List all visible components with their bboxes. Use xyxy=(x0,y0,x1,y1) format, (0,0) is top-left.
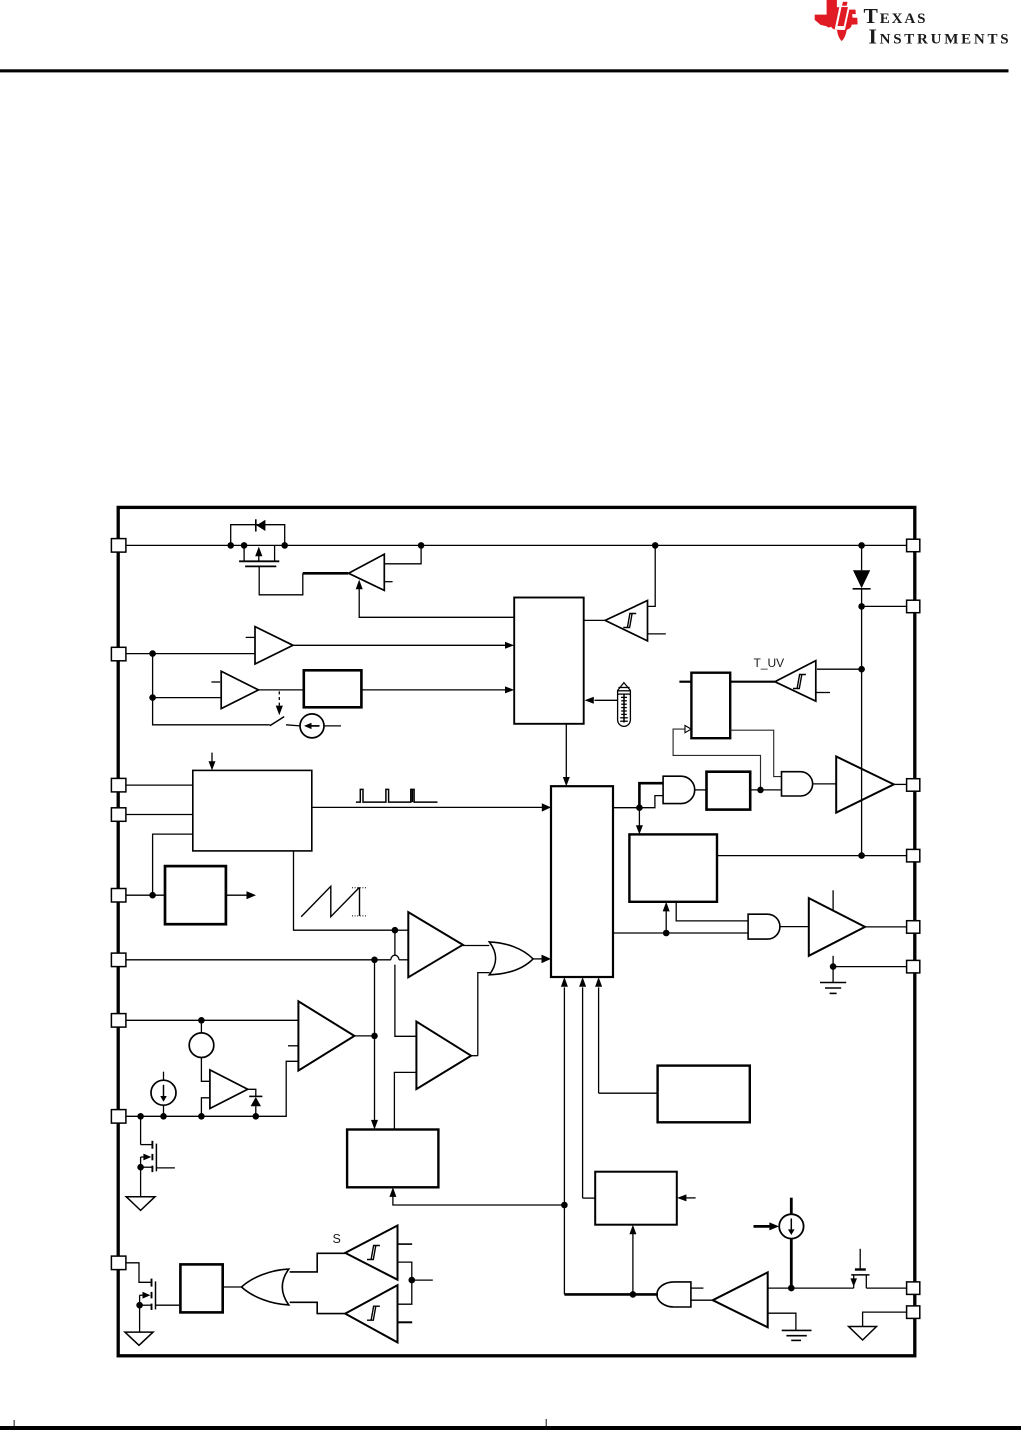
diagram outer border xyxy=(118,507,915,1355)
pin EN xyxy=(111,647,126,661)
wire B3 reset path xyxy=(730,730,781,776)
pin RT/CLK xyxy=(111,778,126,792)
wire U12 upper input xyxy=(768,1287,854,1289)
wire B8 bottom arrow xyxy=(665,911,667,933)
and-gate G4 xyxy=(748,914,780,939)
pin PH xyxy=(907,779,920,792)
nmos Q4 xyxy=(124,1263,180,1332)
comparator U14 xyxy=(345,1285,397,1342)
ground GND5 xyxy=(125,1332,153,1345)
wire B11 input xyxy=(583,1197,596,1199)
wire RT/CLK pin net xyxy=(126,784,193,786)
wire G1 lower input xyxy=(478,973,490,1056)
block B9 overload recovery xyxy=(347,1130,438,1188)
buffer U7 high-side driver xyxy=(836,757,894,813)
TI logo bug xyxy=(815,0,858,41)
pin COMP xyxy=(111,953,126,967)
node B11-arrow xyxy=(630,1291,637,1298)
hysteresis glyph U4 xyxy=(623,614,636,628)
bottom rule xyxy=(0,1426,1021,1430)
wire EN upper net xyxy=(126,1019,299,1021)
wire U8 top stub xyxy=(832,890,834,910)
nmos Q3 xyxy=(850,1249,869,1288)
wire clock to B6 xyxy=(312,806,543,808)
node EN-U9 xyxy=(198,1113,205,1120)
svg-text:T_UV: T_UV xyxy=(754,656,785,670)
node Q2-bulk xyxy=(137,1164,144,1171)
comparator U4 xyxy=(605,601,647,641)
wire B8 output to pin xyxy=(717,855,907,857)
wire sense to PWM comp xyxy=(395,929,408,931)
node U13-U14 xyxy=(409,1277,416,1284)
diode D3 xyxy=(249,1095,262,1097)
wire U6 output xyxy=(463,945,490,947)
thermometer icon xyxy=(618,683,631,727)
pin 6r xyxy=(907,960,920,973)
wire G5 upper stub xyxy=(691,1287,704,1289)
wire sense stub xyxy=(412,1279,433,1281)
wire B11 bottom arrow xyxy=(632,1234,634,1295)
node foldback xyxy=(149,892,156,899)
wire T_UV comp input xyxy=(817,668,862,670)
wire SW1 to I1 xyxy=(286,725,300,726)
TI logo text xyxy=(864,4,1012,49)
pin 5 xyxy=(111,889,126,903)
pin 9 xyxy=(111,1256,126,1270)
block B10 xyxy=(658,1066,750,1123)
wire B12 to G6 xyxy=(223,1286,242,1288)
wire U3 bar stub xyxy=(211,681,220,683)
wire G1 output to B6 xyxy=(533,958,542,960)
wire G6 upper input from U13 xyxy=(290,1253,346,1272)
inverter U12 xyxy=(713,1272,768,1327)
pin GND xyxy=(907,1306,920,1319)
node VIN-Q1-drain xyxy=(241,542,248,549)
comparator U13 xyxy=(345,1226,397,1280)
wire boot comparator upper input xyxy=(384,545,421,563)
wire G5 output to B6 xyxy=(564,1293,658,1296)
pmos Q1 xyxy=(239,545,279,566)
node Q4-bulk xyxy=(136,1302,143,1309)
pmos Q1 body-diode loop xyxy=(231,525,285,546)
node EN-Q2 xyxy=(137,1113,144,1120)
wire U11 output to G1 xyxy=(471,1055,478,1057)
clock waveform glyph xyxy=(356,789,438,802)
wire B4 top arrow xyxy=(211,753,213,762)
wire pin BOOT-PH xyxy=(862,605,907,607)
wire B4 third input xyxy=(153,834,193,895)
wire B6 branch to B8 xyxy=(638,808,640,826)
block B11 xyxy=(595,1172,677,1225)
wire B7 to G3 xyxy=(750,789,781,791)
dashed arrow SW1 control xyxy=(278,691,280,705)
wire U8 return rail xyxy=(832,956,834,983)
op-amp U2 xyxy=(255,627,293,664)
wire pin to GND3 xyxy=(863,1312,907,1326)
block B2 regulator xyxy=(514,598,584,724)
wire B1 to B2 xyxy=(361,689,505,691)
ground GND1 xyxy=(820,983,846,994)
wire I1 stub xyxy=(324,725,341,727)
block B3 thermal shutdown xyxy=(691,673,730,739)
wire G3 output xyxy=(813,783,837,785)
wire Q3 to pin xyxy=(866,1287,907,1289)
wire U5 lower stub xyxy=(816,692,830,694)
block B1 deglitch xyxy=(304,670,362,707)
wire EN-foldback net xyxy=(126,894,165,896)
sawtooth glyph xyxy=(301,886,359,916)
wire COMP branch down xyxy=(374,960,376,1121)
wire U13 input net xyxy=(398,1262,412,1304)
node VIN-U1 xyxy=(418,542,425,549)
wire G6 lower input from U14 xyxy=(290,1302,346,1313)
wire U2 bar stub xyxy=(246,636,255,638)
wire I2 to U9 xyxy=(201,1058,210,1082)
wire U8 output to pin xyxy=(865,926,907,928)
wire G2 to B7 xyxy=(695,789,707,791)
pin VIN right xyxy=(907,539,920,552)
wire U11 lower input to B9 xyxy=(394,1072,416,1129)
pin BOOT xyxy=(907,600,920,613)
diode D2 xyxy=(861,545,863,570)
wire B3 input stub xyxy=(679,681,691,683)
node U10-out xyxy=(371,1033,378,1040)
wire EN input net xyxy=(126,653,255,655)
wire U3 output to B1 xyxy=(259,689,304,691)
wire U4 lower stub xyxy=(648,633,666,635)
wire B3 clock path xyxy=(673,729,760,790)
comparator U5 T_UV xyxy=(775,661,816,702)
switch SW1 xyxy=(270,717,284,726)
and-gate G5 xyxy=(657,1282,691,1307)
wire U1 minus stub xyxy=(384,581,392,583)
node B9-branch xyxy=(561,1202,568,1209)
wire U1 lower input from block B2 xyxy=(359,588,514,617)
wire B5 output arrow xyxy=(226,894,247,896)
wire sense line from B4 xyxy=(294,851,395,930)
node sense-pwm xyxy=(392,927,399,934)
and-gate G3 xyxy=(782,772,813,796)
svg-text:S: S xyxy=(333,1232,341,1246)
node U8-gnd xyxy=(830,963,837,970)
wire VIN rail xyxy=(126,544,907,546)
wire U4 output to B2 xyxy=(584,619,605,621)
pins left xyxy=(111,539,126,1270)
current source I3 hysteresis xyxy=(151,1080,176,1105)
wire U10 bar stub xyxy=(288,1045,298,1047)
wire B6 to G2 xyxy=(613,796,663,808)
wire U10 output xyxy=(354,1035,374,1037)
node BOOT xyxy=(858,603,865,610)
node EN-branch xyxy=(149,650,156,657)
node VIN-diode-loop-left xyxy=(227,542,234,549)
wire U9 output to D3 xyxy=(248,1089,256,1096)
wire B6 bottom arrows xyxy=(563,987,565,1294)
pin VIN xyxy=(111,539,126,553)
svg-text:Instruments: Instruments xyxy=(869,24,1012,48)
comparator U6 PWM xyxy=(408,912,463,977)
wire U9 lower input xyxy=(201,1098,210,1117)
or-gate G6 xyxy=(242,1269,289,1305)
or-gate G1 xyxy=(489,942,533,975)
wire Q1 gate drive xyxy=(259,566,303,594)
wire pin2 net xyxy=(126,814,193,816)
block B5 frequency foldback xyxy=(165,866,226,924)
current source I2 pullup xyxy=(189,1033,214,1058)
node B7-G3 xyxy=(757,787,764,794)
wire U12 lower input to GND4 xyxy=(768,1313,796,1330)
block B6 logic xyxy=(551,786,613,977)
wire B8 bottom to G4 xyxy=(676,902,748,921)
and-gate G2 xyxy=(663,776,695,803)
node EN-U3 xyxy=(149,694,156,701)
wire U7 output to pin xyxy=(894,783,907,785)
node B8-G4 xyxy=(663,930,670,937)
wire U2 output to B2 xyxy=(293,644,506,646)
wire B9 bottom input xyxy=(393,1197,565,1206)
pins right xyxy=(907,539,920,1318)
wire U14 bottom stub xyxy=(398,1321,413,1323)
pin 4r xyxy=(907,849,920,862)
wire U4 upper input to VIN xyxy=(648,545,656,606)
current source I1 xyxy=(300,714,324,738)
pin 8 xyxy=(111,1110,126,1124)
pin SS xyxy=(111,1014,126,1028)
block B12 UVLO xyxy=(180,1264,222,1312)
nmos Q2 xyxy=(141,1116,175,1196)
node SS-I2 xyxy=(198,1017,205,1024)
wire B6 to G4 lower xyxy=(613,932,748,934)
wire B11 right arrow stub xyxy=(686,1197,695,1199)
wire EN lower net xyxy=(126,1061,299,1116)
node VIN-D2 xyxy=(858,542,865,549)
node EN-I3 xyxy=(160,1113,167,1120)
wire sense down branch xyxy=(394,930,396,955)
pin 4 xyxy=(111,808,126,822)
diode D1 xyxy=(256,519,266,531)
top rule xyxy=(0,69,1009,72)
pin 5r xyxy=(907,921,920,934)
wire B10 input xyxy=(599,1092,658,1094)
op-amp U3 xyxy=(221,671,258,708)
buffer U8 low-side driver xyxy=(809,898,865,956)
wire U3 lower input xyxy=(153,654,222,698)
wire thermometer to B2 xyxy=(595,699,618,701)
ground GND2 xyxy=(126,1197,155,1211)
triangle U11 xyxy=(416,1022,471,1090)
wire U12 output to G5 xyxy=(691,1299,713,1301)
wire B2 bottom to B6 xyxy=(565,724,567,778)
node PH-rail xyxy=(858,852,865,859)
node EN-D3 xyxy=(253,1113,260,1120)
wire I4 left arrow xyxy=(754,1225,771,1228)
block B7 deadtime xyxy=(707,772,751,810)
node D2-TUV xyxy=(858,666,865,673)
ground GND3 xyxy=(849,1327,877,1341)
wire switch branch xyxy=(153,698,270,725)
node B6-G2 xyxy=(636,804,643,811)
current source I4 xyxy=(779,1214,803,1238)
wire COMP net xyxy=(126,959,391,961)
op-amp U1 boot comparator xyxy=(349,554,385,590)
node VIN-diode-loop-right xyxy=(281,542,288,549)
ground GND4 xyxy=(782,1330,812,1340)
pin 7r xyxy=(907,1282,920,1295)
wire right rail xyxy=(861,589,863,856)
wire B3 to U5 xyxy=(730,681,775,683)
block B4 oscillator xyxy=(193,770,312,851)
node VIN-U4 xyxy=(652,542,659,549)
wire U13 top stub xyxy=(398,1243,413,1245)
node I4-out xyxy=(788,1285,795,1292)
block B8 current sense xyxy=(629,834,717,901)
node COMP xyxy=(371,957,378,964)
op-amp U9 xyxy=(210,1070,248,1109)
comparator U10 enable xyxy=(298,1001,354,1070)
wire G4 to U8 xyxy=(780,926,809,928)
